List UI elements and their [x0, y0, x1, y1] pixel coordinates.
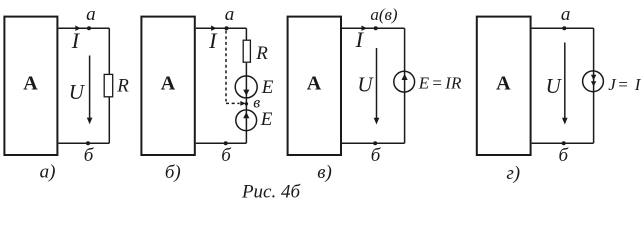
- wire top (circuit b): [196, 27, 247, 29]
- two-port network box A (circuit g): [477, 17, 531, 155]
- two-port network box A (circuit v): [288, 17, 341, 155]
- svg-text:Рис. 4б: Рис. 4б: [241, 182, 302, 200]
- svg-text:б: б: [371, 145, 382, 166]
- svg-text:I: I: [71, 28, 81, 53]
- dashed line vertical (circuit b): [225, 31, 227, 102]
- EMF source E upper circle (circuit b): [235, 76, 257, 98]
- svg-text:а(в): а(в): [370, 5, 398, 24]
- wire bottom (circuit a): [58, 142, 109, 144]
- current source J circle (circuit g): [583, 71, 604, 92]
- svg-text:г): г): [506, 163, 520, 184]
- resistor R (circuit a): [104, 74, 113, 96]
- svg-text:A: A: [161, 73, 176, 95]
- svg-text:I: I: [355, 27, 365, 52]
- node b dot (circuit a): [86, 141, 90, 145]
- node a(v) dot (circuit v): [374, 26, 378, 30]
- EMF arrow down (circuit b): [243, 90, 249, 96]
- wire bottom (circuit b): [196, 142, 247, 144]
- svg-text:U: U: [357, 73, 374, 97]
- svg-text:R: R: [116, 76, 129, 97]
- EMF source E lower circle (circuit b): [236, 110, 257, 131]
- svg-text:A: A: [307, 73, 322, 95]
- wire right branch lower (circuit a): [108, 97, 110, 143]
- node v dot (circuit b): [245, 102, 248, 105]
- node b dot (circuit b): [224, 141, 228, 145]
- two-port network box A (circuit a): [4, 17, 57, 155]
- wire top (circuit v): [342, 27, 405, 29]
- svg-text:I: I: [634, 75, 642, 94]
- wire bottom (circuit g): [532, 142, 594, 144]
- EMF source E circle (circuit v): [394, 71, 415, 92]
- svg-text:в: в: [253, 95, 260, 112]
- node b dot (circuit v): [373, 141, 377, 145]
- current source double arrow down (circuit g): [591, 75, 596, 87]
- label J = I (circuit g): [608, 75, 642, 94]
- wire right branch (circuit v): [404, 28, 406, 143]
- wire right branch through sources (circuit b): [245, 63, 247, 143]
- wire right branch upper (circuit a): [108, 28, 110, 74]
- dashed line horizontal (circuit b): [226, 102, 240, 104]
- svg-text:б: б: [559, 145, 570, 166]
- svg-text:U: U: [69, 80, 86, 104]
- svg-text:E: E: [261, 77, 274, 98]
- svg-text:а: а: [561, 4, 571, 25]
- svg-text:I: I: [208, 28, 218, 53]
- svg-text:а): а): [40, 162, 56, 183]
- voltage arrow U (circuit g): [562, 43, 568, 125]
- svg-text:б): б): [165, 162, 181, 183]
- current arrow I (circuit a): [75, 26, 81, 31]
- svg-text:R: R: [255, 43, 268, 64]
- node a dot (circuit b): [225, 26, 229, 30]
- svg-text:U: U: [546, 74, 563, 98]
- node a dot (circuit a): [87, 26, 91, 30]
- wire top (circuit a): [58, 27, 109, 29]
- svg-text:=: =: [431, 74, 442, 93]
- current arrow I (circuit b): [211, 26, 217, 31]
- arrowhead to node v (circuit b): [240, 101, 246, 106]
- node a dot (circuit g): [562, 26, 566, 30]
- wire top (circuit g): [532, 27, 594, 29]
- svg-text:A: A: [496, 73, 511, 95]
- current arrow I (circuit v): [362, 26, 368, 31]
- EMF arrow up (circuit b): [243, 112, 249, 118]
- svg-text:A: A: [23, 73, 38, 95]
- svg-text:=: =: [617, 75, 628, 94]
- svg-text:E: E: [418, 74, 430, 93]
- EMF arrow up (circuit v): [402, 74, 408, 80]
- svg-text:IR: IR: [444, 74, 462, 93]
- resistor R (circuit b): [243, 40, 250, 62]
- label E = IR (circuit v): [418, 74, 462, 93]
- svg-text:E: E: [260, 109, 273, 130]
- wire bottom (circuit v): [342, 142, 405, 144]
- wire right branch top (circuit b): [245, 28, 247, 39]
- voltage arrow U (circuit a): [87, 56, 93, 125]
- svg-text:а: а: [225, 4, 235, 25]
- svg-text:J: J: [608, 75, 617, 94]
- svg-text:в): в): [317, 162, 332, 183]
- svg-text:б: б: [84, 145, 95, 166]
- voltage arrow U (circuit v): [374, 48, 380, 125]
- two-port network box A (circuit b): [141, 17, 194, 155]
- node b dot (circuit g): [562, 141, 566, 145]
- wire right branch (circuit g): [593, 28, 595, 143]
- svg-text:б: б: [221, 145, 232, 166]
- svg-text:а: а: [86, 4, 96, 25]
